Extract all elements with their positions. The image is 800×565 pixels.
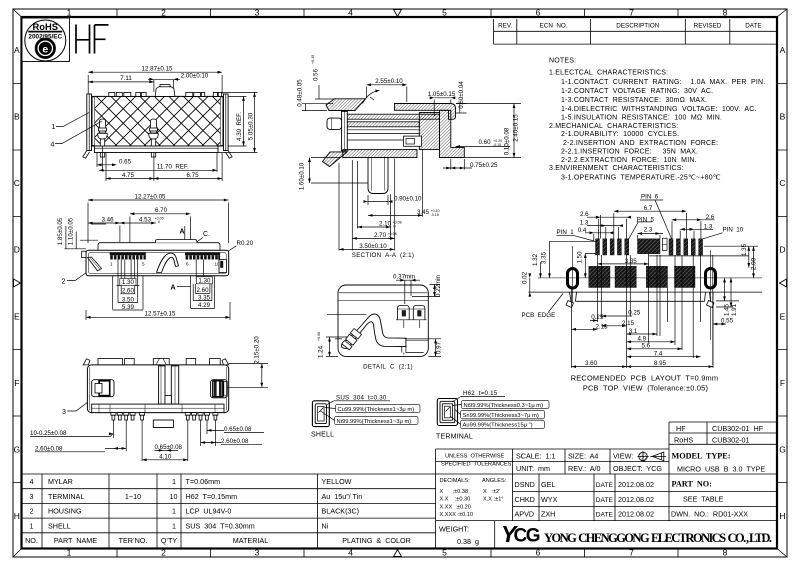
interior lines (347, 130, 419, 140)
svg-text:SPECIFIED TOLERANCES: SPECIFIED TOLERANCES (441, 462, 512, 468)
side row ticks (13, 84, 22, 483)
svg-text:3: 3 (255, 548, 260, 558)
svg-text:1-5.INSULATION RESISTANCE: 1: 1-5.INSULATION RESISTANCE: 100 MΩ MIN. (561, 114, 722, 121)
left flange (87, 94, 92, 151)
svg-text:X.X :±0.30: X.X :±0.30 (440, 497, 471, 503)
svg-text:7.4: 7.4 (654, 351, 663, 358)
svg-text:3.35: 3.35 (541, 251, 548, 264)
svg-text:0.65±0.08: 0.65±0.08 (155, 444, 183, 451)
svg-text:DSND: DSND (515, 480, 535, 489)
dims (326, 280, 441, 356)
svg-text:0.56: 0.56 (313, 68, 320, 81)
svg-text:2: 2 (161, 8, 166, 18)
svg-text:3: 3 (62, 409, 66, 416)
svg-text:10-0.25±0.08: 10-0.25±0.08 (30, 430, 67, 437)
svg-text:CG: CG (514, 526, 540, 547)
svg-text:6: 6 (536, 548, 541, 558)
bottom shell wall (hatched) (343, 150, 417, 158)
svg-text:1: 1 (172, 507, 176, 516)
serration clips on band (350, 329, 361, 340)
1.05 (434, 98, 451, 116)
bottom plate (94, 146, 218, 153)
svg-text:7: 7 (629, 8, 634, 18)
svg-text:MYLAR: MYLAR (48, 477, 73, 486)
svg-text:6: 6 (536, 8, 541, 18)
contact combs (110, 252, 220, 259)
svg-text:YONG CHENGGONG ELECTRONICS: YONG CHENGGONG ELECTRONICS CO. , LTD. (544, 531, 772, 545)
left diagonal piece (88, 257, 102, 271)
svg-text:NO.: NO. (25, 536, 38, 545)
svg-text:2: 2 (161, 548, 166, 558)
svg-text:1.3: 1.3 (704, 223, 713, 230)
svg-text:0: 0 (388, 236, 391, 240)
svg-text:0.38 g: 0.38 g (457, 537, 479, 546)
svg-text:Q’TY: Q’TY (161, 536, 178, 545)
lower dims (97, 146, 222, 181)
svg-text:BLACK(3C): BLACK(3C) (322, 507, 360, 516)
white contact slot notch (404, 136, 422, 146)
center tab below (153, 420, 173, 428)
svg-text:6.70: 6.70 (155, 207, 168, 214)
svg-text:1.05±0.15: 1.05±0.15 (428, 91, 456, 98)
svg-text:DATE: DATE (596, 512, 614, 519)
svg-text:REVISED: REVISED (694, 23, 722, 30)
svg-text:2-2.1.INSERTION FORCE: 35: 2-2.1.INSERTION FORCE: 35N MAX. (561, 148, 698, 155)
svg-text:RoHS: RoHS (674, 435, 693, 444)
svg-text:C.: C. (203, 231, 210, 238)
svg-text:4: 4 (348, 8, 353, 18)
svg-text:MATERIAL: MATERIAL (233, 536, 268, 545)
svg-text:8: 8 (723, 8, 728, 18)
boxed 1.30 left (120, 279, 136, 286)
svg-text:X.X :±1°: X.X :±1° (483, 497, 504, 503)
bottom band (92, 404, 224, 413)
svg-text:SUS 304 t=0.30: SUS 304 t=0.30 (336, 394, 387, 401)
svg-text:0.25: 0.25 (591, 314, 604, 321)
HF / RoHS mini table (669, 422, 777, 444)
svg-text:3.45: 3.45 (417, 209, 430, 216)
svg-text:1.3: 1.3 (580, 220, 589, 227)
svg-text:SHELL: SHELL (48, 521, 71, 530)
svg-text:C: C (14, 178, 20, 188)
svg-text:6.7: 6.7 (644, 205, 653, 212)
right slot (211, 380, 228, 398)
dims above (88, 200, 228, 251)
svg-text:8: 8 (723, 548, 728, 558)
svg-text:G: G (779, 445, 786, 455)
latch hook band (342, 314, 406, 349)
svg-text:8.95: 8.95 (654, 360, 667, 367)
svg-text:2012.08.02: 2012.08.02 (618, 480, 654, 489)
svg-text:1: 1 (172, 521, 176, 530)
svg-text:PIN 10: PIN 10 (723, 227, 744, 234)
svg-text:2.60: 2.60 (122, 287, 135, 294)
svg-text:5.6: 5.6 (641, 343, 650, 350)
svg-text:1.30: 1.30 (122, 279, 135, 286)
svg-text:0.90±0.10: 0.90±0.10 (394, 195, 422, 202)
svg-text:4.75: 4.75 (122, 172, 135, 179)
bottom feet diagonals (83, 151, 90, 159)
svg-text:A: A (180, 229, 185, 236)
svg-text:4.53: 4.53 (139, 216, 152, 223)
svg-text:CUB302-01: CUB302-01 (712, 435, 750, 444)
svg-text:HF: HF (676, 424, 686, 433)
svg-text:3.1: 3.1 (629, 328, 638, 335)
svg-text:3: 3 (30, 492, 34, 501)
svg-text:1: 1 (172, 477, 176, 486)
svg-text:2012.08.02: 2012.08.02 (618, 510, 654, 519)
svg-text:CHKD: CHKD (515, 495, 535, 504)
svg-text:B: B (780, 112, 786, 122)
internal pins (rivets) (98, 119, 158, 157)
svg-text:2.60±0.08: 2.60±0.08 (35, 445, 63, 452)
svg-text:5: 5 (142, 262, 145, 267)
svg-text:A: A (14, 45, 20, 55)
svg-text:0: 0 (156, 220, 160, 224)
body with weave hatch (92, 96, 224, 146)
TERMINAL stack (437, 399, 457, 426)
svg-text:SECTION A-A (2:1): SECTION A-A (2:1) (352, 252, 414, 259)
bottom dim stack (572, 254, 727, 368)
svg-text:WYX: WYX (541, 495, 558, 504)
contacts at top right (397, 306, 425, 320)
svg-text:2.70: 2.70 (374, 232, 387, 239)
left extension line (327, 314, 367, 339)
svg-text:G: G (13, 445, 20, 455)
svg-text:0.4: 0.4 (578, 227, 587, 234)
svg-text:Ni99.99%(Thickness0.3~1μ m): Ni99.99%(Thickness0.3~1μ m) (464, 403, 544, 409)
svg-text:12.27±0.05: 12.27±0.05 (135, 193, 166, 200)
svg-text:0.37min: 0.37min (393, 274, 416, 281)
svg-text:0.02: 0.02 (522, 271, 529, 284)
left cap (rivet head) (327, 118, 342, 129)
svg-text:R0.20: R0.20 (237, 240, 254, 247)
bottom-left wing (hatched) (323, 152, 348, 167)
svg-text:1: 1 (67, 548, 72, 558)
svg-text:ZXH: ZXH (541, 510, 555, 519)
svg-text:3.ENVIRENMENT CHARACTERISTICS: 3.ENVIRENMENT CHARACTERISTICS: (549, 165, 684, 172)
svg-text:5: 5 (442, 8, 447, 18)
HF marking (76, 25, 109, 54)
svg-text:0.60: 0.60 (478, 139, 491, 146)
svg-text:X :±0.38: X :±0.38 (440, 489, 469, 495)
right bracket piece (219, 260, 227, 273)
svg-text:PLATING & COLOR: PLATING & COLOR (342, 536, 411, 545)
svg-text:Ni: Ni (322, 521, 329, 530)
svg-text:E: E (14, 312, 20, 322)
dims (30, 420, 264, 461)
svg-text:Sn99.99%(Thickness3~7μ m): Sn99.99%(Thickness3~7μ m) (463, 413, 539, 419)
view symbols (637, 451, 666, 462)
svg-text:SHELL: SHELL (311, 432, 334, 439)
top bumps (83, 359, 229, 365)
svg-text:UNIT: mm: UNIT: mm (516, 464, 550, 473)
svg-text:2.15: 2.15 (622, 320, 635, 327)
svg-text:X.XXX :±0.10: X.XXX :±0.10 (440, 512, 474, 518)
svg-text:e: e (42, 43, 48, 55)
svg-text:OBJECT: YCG: OBJECT: YCG (613, 464, 662, 473)
svg-text:NOTES:: NOTES: (549, 58, 576, 65)
right-side dims (218, 92, 258, 152)
svg-text:1-3.CONTACT RESISTANCE: 30mΩ: 1-3.CONTACT RESISTANCE: 30mΩ MAX. (561, 97, 707, 104)
left small tab (82, 251, 86, 257)
svg-text:2.40±0.15: 2.40±0.15 (513, 114, 520, 142)
top-left angled wing (hatched) (326, 99, 366, 111)
svg-text:LCP UL94V-0: LCP UL94V-0 (186, 507, 232, 516)
svg-text:DATE: DATE (745, 23, 761, 30)
lower dims (86, 260, 230, 321)
top contact bumps (109, 85, 222, 97)
svg-text:H62 t=0.15: H62 t=0.15 (463, 390, 498, 397)
svg-text:0.75±0.25: 0.75±0.25 (470, 162, 498, 169)
svg-text:0.60±0.04: 0.60±0.04 (458, 81, 465, 109)
svg-text:1.91: 1.91 (731, 303, 738, 316)
svg-text:0: 0 (393, 225, 396, 229)
svg-text:GEL: GEL (541, 480, 555, 489)
svg-text:RoHS: RoHS (33, 21, 59, 32)
svg-text:E: E (780, 312, 786, 322)
svg-text:2.6: 2.6 (580, 211, 589, 218)
svg-text:SIZE: A4: SIZE: A4 (568, 451, 598, 460)
svg-text:3.50±0.10: 3.50±0.10 (359, 243, 387, 250)
svg-text:TER’NO.: TER’NO. (119, 536, 148, 545)
svg-text:REV.: A/0: REV.: A/0 (568, 464, 601, 473)
svg-text:0.25: 0.25 (628, 310, 641, 317)
svg-text:1.30: 1.30 (198, 277, 211, 284)
svg-text:7.11: 7.11 (120, 75, 132, 82)
svg-text:3.60: 3.60 (585, 360, 598, 367)
top shell wall (hatched) with right curl (395, 104, 456, 120)
svg-text:B: B (14, 112, 20, 122)
angle arc with arrow (363, 91, 380, 104)
svg-text:WEIGHT:: WEIGHT: (439, 525, 469, 534)
svg-text:1.50: 1.50 (577, 251, 584, 264)
svg-text:DECIMALS:: DECIMALS: (440, 478, 471, 484)
svg-text:1-4.DIELECTRIC WITHSTANDING: 1-4.DIELECTRIC WITHSTANDING VOLTAGE: 100… (561, 106, 757, 113)
svg-text:6.75: 6.75 (186, 172, 199, 179)
svg-text:3.46: 3.46 (101, 216, 114, 223)
svg-text:2.15: 2.15 (595, 324, 608, 331)
svg-text:2.MECHANICAL CHARACTERISTICS:: 2.MECHANICAL CHARACTERISTICS: (549, 123, 678, 130)
svg-text:2.15±0.20: 2.15±0.20 (253, 336, 260, 364)
lower dim stack (339, 150, 423, 251)
svg-text:0.65: 0.65 (119, 158, 132, 165)
svg-text:DETAIL C (2:1): DETAIL C (2:1) (363, 363, 413, 370)
svg-text:ECN NO.: ECN NO. (540, 23, 568, 30)
center channel (159, 366, 165, 404)
svg-text:DATE: DATE (596, 482, 614, 489)
right vertical dims (704, 246, 758, 365)
svg-text:CUB302-01 HF: CUB302-01 HF (712, 424, 764, 433)
svg-text:HOUSING: HOUSING (48, 507, 82, 516)
svg-text:-0.15: -0.15 (431, 213, 439, 217)
dims: 2.55 top (367, 85, 407, 102)
svg-text:3-1.OPERATING TEMPERATURE.-25: 3-1.OPERATING TEMPERATURE.-25℃~+80℃ (561, 174, 721, 181)
big pads row (589, 266, 695, 287)
left slot (92, 380, 114, 397)
boxed 1.30 right (196, 277, 212, 284)
centerline through (538, 277, 762, 279)
left wall (342, 111, 348, 150)
svg-text:Au99.99%(Thickness15μ ”): Au99.99%(Thickness15μ ”) (463, 423, 533, 429)
body (87, 365, 228, 413)
svg-text:1.45: 1.45 (723, 303, 730, 316)
svg-text:1.ELECTCAL CHARACTERISTICS:: 1.ELECTCAL CHARACTERISTICS: (549, 70, 668, 77)
svg-text:4.10: 4.10 (159, 453, 172, 460)
svg-text:2.60: 2.60 (196, 287, 209, 294)
svg-text:YELLOW: YELLOW (322, 477, 352, 486)
svg-text:REV.: REV. (498, 23, 512, 30)
main body (86, 250, 229, 275)
svg-text:2.10: 2.10 (379, 221, 392, 228)
svg-text:10: 10 (170, 492, 178, 501)
svg-text:5.05±0.30: 5.05±0.30 (247, 112, 254, 140)
center latch hook (top view) (157, 253, 179, 272)
svg-text:SEE TABLE: SEE TABLE (683, 495, 724, 504)
svg-text:H62 T=0.15mm: H62 T=0.15mm (186, 492, 238, 501)
svg-text:X :±2’: X :±2’ (483, 489, 500, 495)
svg-text:SUS 304 T=0.30mm: SUS 304 T=0.30mm (186, 521, 255, 530)
svg-text:Ni99.99%(Thickness1~3μ m): Ni99.99%(Thickness1~3μ m) (337, 419, 412, 425)
svg-text:A: A (171, 284, 176, 291)
top dims (585, 211, 749, 264)
svg-text:PCB EDGE: PCB EDGE (522, 312, 556, 319)
svg-text:F: F (780, 378, 785, 388)
svg-text:Cu99.99%(Thickness1~3μ m): Cu99.99%(Thickness1~3μ m) (338, 407, 415, 413)
svg-text:TERMINAL: TERMINAL (436, 433, 473, 440)
svg-text:0.97: 0.97 (435, 341, 442, 354)
svg-text:2: 2 (62, 278, 66, 285)
svg-text:UNLESS OTHERWISE: UNLESS OTHERWISE (445, 454, 505, 460)
svg-text:2-2.2.EXTRACTION FORCE: 10N: 2-2.2.EXTRACTION FORCE: 10N MIN. (561, 157, 697, 164)
svg-text:2-1.DURABILITY: 10000 CYCLES: 2-1.DURABILITY: 10000 CYCLES. (561, 131, 679, 138)
svg-text:PART NAME: PART NAME (54, 536, 97, 545)
svg-text:3: 3 (255, 8, 260, 18)
svg-text:7: 7 (629, 548, 634, 558)
tolerances cell (440, 454, 512, 519)
svg-text:X.XX :±0.20: X.XX :±0.20 (440, 504, 471, 510)
svg-text:12.57±0.15: 12.57±0.15 (145, 311, 176, 318)
svg-text:4.30 REF.: 4.30 REF. (236, 112, 243, 141)
L bracket (hatched) (440, 110, 465, 157)
step at foot right end (402, 340, 429, 354)
svg-text:6: 6 (186, 262, 189, 267)
center tab (155, 86, 175, 96)
svg-text:D: D (14, 245, 20, 255)
svg-text:A: A (780, 45, 786, 55)
svg-text:1: 1 (110, 262, 113, 267)
svg-text:2.00±0.10: 2.00±0.10 (181, 73, 209, 80)
svg-text:12.87±0.15: 12.87±0.15 (142, 66, 173, 73)
svg-text:MODEL TYPE:: MODEL TYPE: (672, 452, 731, 461)
dimension lines above (88, 72, 222, 94)
svg-text:0.22min: 0.22min (435, 274, 442, 297)
top/bottom column ticks (117, 9, 678, 17)
svg-text:1.35: 1.35 (741, 243, 748, 256)
svg-text:2-2.INSERTION AND EXTRACTION: 2-2.INSERTION AND EXTRACTION FORCE: (563, 140, 718, 147)
svg-text:0.65±0.08: 0.65±0.08 (224, 426, 252, 433)
svg-text:F: F (14, 378, 19, 388)
svg-text:11.70 REF.: 11.70 REF. (157, 164, 189, 171)
svg-text:0.48±0.05: 0.48±0.05 (297, 79, 304, 107)
right flange (224, 94, 229, 151)
svg-text:DATE: DATE (596, 497, 614, 504)
housing block (hatched) (419, 113, 439, 150)
svg-text:TERMINAL: TERMINAL (48, 492, 84, 501)
svg-text:C: C (779, 178, 785, 188)
svg-text:APVD: APVD (515, 510, 535, 519)
svg-text:1.10±0.05: 1.10±0.05 (68, 217, 75, 245)
svg-text:2.3: 2.3 (644, 227, 653, 234)
svg-text:2.60±0.08: 2.60±0.08 (221, 438, 249, 445)
svg-text:2.6: 2.6 (706, 214, 715, 221)
svg-text:4.29: 4.29 (198, 302, 211, 309)
svg-text:PIN 6: PIN 6 (641, 194, 659, 201)
svg-text:4: 4 (30, 477, 34, 486)
svg-text:1.60±0.10: 1.60±0.10 (299, 162, 306, 190)
svg-text:SCALE: 1:1: SCALE: 1:1 (516, 451, 556, 460)
svg-text:DWN. NO.: RD01-XXX: DWN. NO.: RD01-XXX (671, 510, 748, 519)
svg-text:T=0.06mm: T=0.06mm (186, 477, 221, 486)
svg-text:1.24: 1.24 (318, 345, 325, 358)
svg-text:DESCRIPTION: DESCRIPTION (616, 23, 659, 30)
tongue plate (98, 243, 220, 251)
svg-text:PCB TOP VIEW (Tolerance:±0.: PCB TOP VIEW (Tolerance:±0.05) (583, 383, 708, 392)
svg-text:RECOMENDED PCB LAYOUT T=0.9: RECOMENDED PCB LAYOUT T=0.9mm (571, 374, 718, 383)
svg-text:1: 1 (30, 521, 34, 530)
center post (368, 158, 388, 194)
svg-text:1.85±0.05: 1.85±0.05 (57, 217, 64, 245)
svg-text:H: H (779, 511, 785, 521)
svg-text:PART NO:: PART NO: (672, 480, 712, 489)
svg-text:5: 5 (442, 548, 447, 558)
svg-text:ANGLES:: ANGLES: (482, 478, 507, 484)
svg-text:2012.08.02: 2012.08.02 (618, 495, 654, 504)
svg-text:4: 4 (51, 142, 55, 149)
svg-text:1: 1 (52, 124, 56, 131)
svg-text:1: 1 (67, 8, 72, 18)
0.75±0.25 (443, 159, 472, 170)
svg-text:1-2.CONTACT VOLTAGE RATING:: 1-2.CONTACT VOLTAGE RATING: 30V AC. (561, 88, 713, 95)
svg-text:0.10±0.08: 0.10±0.08 (504, 127, 511, 155)
PCB edge (528, 291, 762, 293)
svg-text:+0.08: +0.08 (317, 332, 321, 341)
svg-text:H: H (14, 511, 20, 521)
svg-text:1~10: 1~10 (125, 492, 141, 501)
svg-text:4: 4 (348, 548, 353, 558)
contact strips (hatched thin) (345, 114, 440, 119)
svg-text:0.55: 0.55 (721, 318, 734, 325)
terminal legs (111, 413, 218, 420)
svg-text:2.00: 2.00 (751, 257, 758, 270)
svg-text:VIEW:: VIEW: (613, 451, 633, 460)
svg-text:1.32: 1.32 (532, 253, 539, 266)
svg-text:Au 15u”/ Tin: Au 15u”/ Tin (322, 492, 363, 501)
svg-text:4.9: 4.9 (637, 336, 646, 343)
top pin pads row (596, 239, 703, 255)
svg-text:D: D (779, 245, 785, 255)
svg-text:2: 2 (30, 507, 34, 516)
oval mounting holes (568, 269, 578, 289)
svg-text:MICRO USB B 3.0 TYPE: MICRO USB B 3.0 TYPE (677, 464, 765, 473)
svg-text:1-1.CONTACT CURRENT RATING:: 1-1.CONTACT CURRENT RATING: 1.0A MAX. PE… (561, 79, 765, 86)
SHELL stack (312, 401, 329, 427)
svg-text:+0.15: +0.15 (311, 55, 315, 64)
svg-text:2.55±0.10: 2.55±0.10 (375, 78, 403, 85)
